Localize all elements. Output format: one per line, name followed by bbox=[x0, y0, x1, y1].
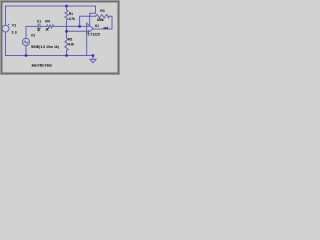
svg-text:R3: R3 bbox=[100, 9, 105, 13]
op-amp U1 bbox=[87, 23, 94, 34]
svg-text:R1: R1 bbox=[69, 12, 73, 16]
svg-text:4.7k: 4.7k bbox=[68, 43, 74, 47]
svg-text:V1: V1 bbox=[12, 24, 17, 28]
svg-text:LT1215: LT1215 bbox=[88, 32, 100, 36]
svg-text:1k: 1k bbox=[45, 27, 48, 31]
voltage source V1 bbox=[2, 24, 9, 32]
resistor R1 bbox=[65, 6, 68, 31]
wire R3 to output bbox=[109, 16, 112, 29]
capacitor C1 bbox=[38, 24, 40, 28]
svg-text:4.7k: 4.7k bbox=[69, 17, 75, 21]
resistor R4 bbox=[47, 25, 54, 28]
window frame inner dark ring bbox=[2, 2, 119, 74]
svg-text:V2: V2 bbox=[31, 34, 36, 38]
svg-text:R4: R4 bbox=[45, 19, 50, 23]
wire output bbox=[93, 28, 112, 30]
sheet background bbox=[0, 0, 120, 75]
wire V2 to ground rail bbox=[25, 46, 27, 56]
svg-text:1µ: 1µ bbox=[37, 27, 40, 31]
svg-text:C1: C1 bbox=[37, 19, 41, 23]
resistor R2 bbox=[65, 31, 68, 55]
wire upper input net bbox=[26, 25, 38, 27]
wire rail to opamp V+ bbox=[90, 6, 96, 24]
wire upper net down to V2 bbox=[25, 26, 27, 38]
wire V1 top to rail bbox=[5, 6, 7, 25]
svg-text:R2: R2 bbox=[68, 38, 72, 42]
svg-text:SINE(1.5 10m 1k): SINE(1.5 10m 1k) bbox=[31, 45, 59, 49]
wire feedback from inverting node bbox=[80, 16, 96, 26]
node bias divider bbox=[65, 30, 67, 32]
voltage source V2 bbox=[22, 38, 29, 45]
ground bbox=[92, 56, 94, 60]
junction dots bbox=[25, 5, 94, 57]
node V2-rail bbox=[25, 54, 27, 56]
wire C1 to R4 bbox=[40, 25, 46, 27]
wire bottom rail bbox=[6, 55, 94, 57]
svg-text:100k: 100k bbox=[97, 18, 104, 22]
node rail-R1 bbox=[65, 5, 67, 7]
window frame outer bbox=[1, 1, 120, 75]
svg-text:3.3: 3.3 bbox=[12, 30, 17, 34]
node ground-rail bbox=[92, 54, 94, 56]
wire opamp V- to ground rail bbox=[86, 34, 88, 56]
wire V1 bottom down bbox=[5, 32, 7, 56]
wire top rail bbox=[6, 5, 96, 7]
node feedback-input bbox=[78, 25, 80, 27]
wire R4 to opamp inverting input bbox=[54, 25, 87, 27]
node R2-rail bbox=[65, 54, 67, 56]
wire lower input net bbox=[67, 30, 87, 32]
svg-text:U1: U1 bbox=[95, 24, 99, 28]
resistor R3 bbox=[96, 14, 110, 18]
svg-text:.tran 0 5m 0 10u: .tran 0 5m 0 10u bbox=[31, 63, 52, 67]
